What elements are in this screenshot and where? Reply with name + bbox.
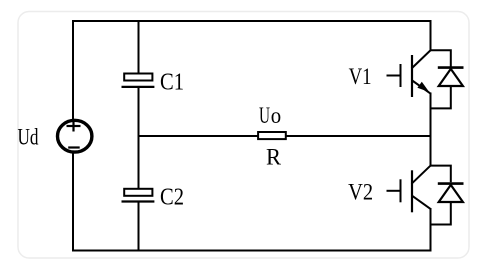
svg-text:C2: C2	[160, 185, 184, 211]
wire capacitor leg middle	[138, 87, 140, 189]
capacitor C1	[122, 74, 155, 87]
svg-text:V1: V1	[349, 64, 372, 89]
wire right bus top	[430, 20, 432, 51]
diode VD1 antiparallel	[438, 68, 464, 86]
wire top bus	[72, 20, 432, 22]
wire right bus bottom	[430, 208, 432, 251]
resistor R	[258, 132, 286, 139]
svg-text:V2: V2	[348, 180, 373, 205]
svg-text:o: o	[271, 103, 281, 128]
transistor V2	[387, 165, 431, 212]
wire capacitor leg top	[138, 20, 140, 73]
wire output left	[139, 135, 259, 137]
transistor V1	[387, 50, 431, 97]
wire left bus lower	[72, 153, 74, 251]
wire V2 diode return	[430, 201, 451, 225]
wire V1 diode branch	[430, 50, 451, 67]
svg-text:Ud: Ud	[18, 124, 39, 149]
svg-text:C1: C1	[160, 69, 184, 95]
capacitor C2	[122, 189, 155, 202]
svg-text:U: U	[259, 103, 270, 128]
svg-text:R: R	[266, 145, 282, 170]
diode VD2 antiparallel	[438, 184, 464, 202]
wire left bus upper	[72, 20, 74, 120]
wire capacitor leg bottom	[138, 202, 140, 252]
wire V1 diode return	[430, 85, 451, 108]
wire V2 diode branch	[430, 166, 451, 183]
wire output right	[286, 135, 431, 137]
voltage source Ud	[57, 120, 91, 152]
wire bottom bus	[72, 250, 432, 252]
wire right bus middle	[430, 93, 432, 167]
